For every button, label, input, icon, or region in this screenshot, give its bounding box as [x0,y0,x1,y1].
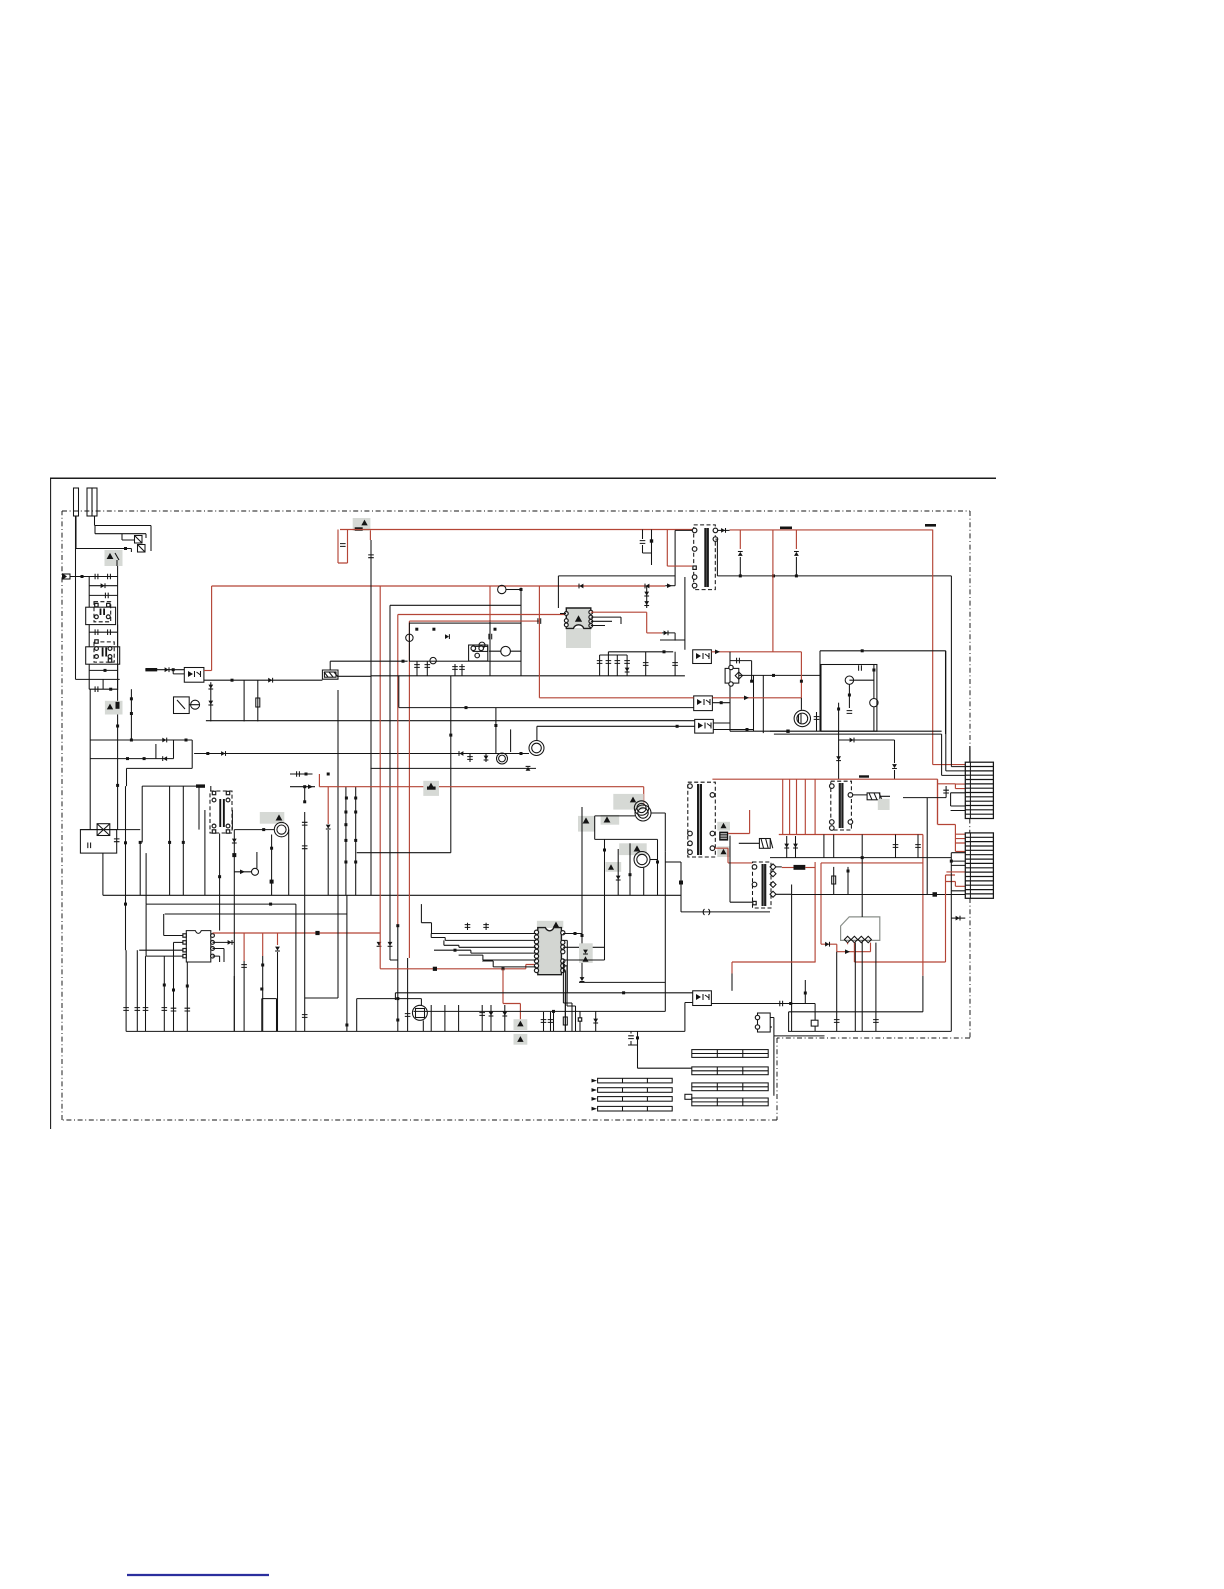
wire [481,1005,483,1031]
wire [903,797,946,799]
wire [608,651,673,653]
diode D605 [165,667,169,672]
resistor R602 [256,698,260,707]
wire [821,862,923,864]
capacitor C603 [105,593,108,599]
node [186,985,189,988]
main bus GND3 [788,1030,951,1032]
pin [183,941,186,944]
node [454,949,457,952]
diode D606 [268,678,272,683]
pin [753,901,756,904]
capacitor C638 [483,925,489,928]
pin [95,655,99,659]
capacitor C644 [541,1020,547,1023]
wire [206,720,695,722]
wire [76,549,131,553]
diode D601 [101,583,105,588]
relay contact S601a [135,536,143,544]
connector CN602 [965,833,993,898]
transistor Q604 [252,868,259,875]
transformer T603 [831,781,852,830]
main bus [774,733,942,735]
wire [173,942,175,1031]
wire [135,536,142,543]
wire [951,853,965,891]
wire [646,586,648,608]
node [270,847,273,850]
photocoupler PC606 [758,1013,771,1032]
node [795,574,798,577]
wire [407,958,409,1031]
wire [390,605,398,960]
wire [139,949,183,951]
dashed box L602 [94,642,114,662]
wire [629,843,631,895]
diode D610 [232,839,237,843]
wire [122,534,135,540]
node [116,725,119,728]
wire [789,779,791,834]
wire [89,689,91,740]
line filter L602 [86,647,120,664]
diode D603 [163,756,167,761]
wire [946,871,965,873]
pin [830,826,835,831]
label [859,775,869,777]
wire [537,725,695,727]
node [629,873,632,876]
transistor Q612 [634,801,648,815]
wire [90,740,173,830]
shaded area [606,862,622,872]
node [656,861,659,864]
node [270,880,274,884]
capacitor C618 [452,667,458,670]
diode D622 [892,764,897,768]
wire [772,530,774,652]
node [581,934,584,937]
label bar [598,1088,673,1093]
diode D627 [616,876,621,880]
diamond [735,672,742,679]
wire [213,956,220,962]
capacitor C635 [241,965,247,968]
wire [70,576,118,578]
wire [595,838,658,840]
wire [210,786,212,791]
wire [506,589,521,591]
wire [489,586,491,620]
pin [534,959,538,963]
transistor Q617 [634,852,650,868]
wire [563,966,575,1006]
shaded area switch [105,550,123,566]
diode D616 [625,668,630,672]
wire [305,895,338,998]
wire [938,779,956,851]
wire [212,585,666,587]
node [800,680,803,683]
pin [534,949,538,953]
wire [304,787,306,802]
wire [776,867,792,894]
warning icon [604,816,611,822]
wire [421,923,536,934]
capacitor C633 [171,1008,177,1011]
node [81,575,84,578]
core RY601 [219,799,221,827]
wire [233,830,235,896]
wire [380,934,534,969]
node [432,628,435,631]
bridge diagonals [97,824,110,836]
capacitor C640 [780,1001,783,1007]
wire [169,786,171,895]
wire [770,1018,774,1036]
wire [261,999,263,1032]
gate bars [799,714,802,723]
pin [688,850,693,855]
pin [183,934,186,937]
wire [718,529,730,531]
diode D626 [956,916,960,921]
wire [665,585,675,587]
pin [479,646,484,651]
shaded area [717,846,730,857]
wire [520,588,522,676]
diode D607 [208,685,213,689]
node [185,739,188,742]
pin [106,615,110,619]
pin [534,968,538,972]
wire [136,950,138,1031]
wire [791,885,793,895]
capacitor C605 [108,629,111,635]
wire [664,993,666,1012]
wire [563,961,572,1031]
warning icon [721,823,727,828]
pin [108,647,112,651]
wire [951,917,965,919]
wire [125,786,127,950]
arrow [667,583,672,588]
label bar [692,1083,768,1091]
wire [186,962,188,1031]
capacitor [672,663,678,666]
wire [434,950,536,953]
wire [591,611,647,613]
diode D630 [583,950,588,954]
wire [667,530,692,567]
pin [710,846,715,851]
fuse F602 [87,488,92,516]
transistor Q617 inner [637,854,647,864]
wire [398,614,566,616]
wire [730,529,933,531]
wire [657,839,659,895]
wire [579,1011,581,1031]
node [746,728,749,731]
wire [820,863,822,944]
wire [211,586,213,671]
node [124,903,127,906]
capacitor C629 [135,1008,141,1011]
diode [459,751,463,756]
pin [561,945,565,949]
pin [475,653,480,658]
capacitor C608 [88,843,91,849]
wire [338,530,348,564]
wire [875,943,877,1032]
wire [89,577,117,607]
regulator IC603 [566,608,591,628]
wire [138,545,145,552]
wire [304,812,306,895]
diode D615 [664,631,668,636]
capacitor C642 [628,1036,634,1039]
node [396,1019,399,1022]
regulator IC605 outline [841,917,880,941]
diode D612 [445,634,449,639]
wire [819,651,821,731]
capacitor C616 [538,618,541,624]
pin [752,865,757,870]
IC605 pins [844,936,850,942]
wire [213,949,225,963]
wire [399,707,694,709]
arrow [308,784,313,789]
transistor Q615 [794,710,810,726]
PC604 internals [698,723,703,729]
wire [739,674,821,676]
wire [369,530,371,541]
capacitor [606,661,612,664]
label [925,524,936,527]
wire [80,829,140,831]
capacitor C626 [834,1020,840,1023]
wire [730,661,752,682]
main bus GND2 [126,1030,685,1032]
diode D628 [275,947,280,951]
wire [557,576,559,608]
wire [455,664,462,676]
wire [75,516,77,549]
wire [142,785,199,787]
pin [212,824,216,828]
wire [277,933,279,945]
pin [755,1015,759,1019]
node [449,734,452,737]
label bar [692,1098,768,1106]
photocoupler PC602 [693,650,712,664]
pin [212,798,216,802]
wire [290,773,313,775]
node [848,694,851,697]
wire [370,540,372,895]
main bus [717,575,951,577]
node [104,669,107,672]
photocoupler PC601 [184,668,204,683]
node [354,797,357,800]
wire [408,621,410,958]
wire [795,836,797,858]
diode D632 [502,1012,507,1016]
warning icon [575,615,582,622]
wire [728,810,749,834]
wire [75,516,77,679]
wire [233,976,235,1031]
wire [788,1012,790,1032]
pin [211,941,215,945]
wire [357,852,451,854]
transformer T604 [753,862,772,908]
node [182,841,185,844]
photocoupler PC605 [693,991,712,1006]
wire [712,702,730,704]
wire [739,530,741,549]
pin [226,830,229,833]
capacitor C625 [915,845,921,848]
capacitor C615 [425,665,431,668]
diode [484,756,489,760]
wire [243,961,245,1031]
node [750,680,753,683]
wire [664,851,666,993]
wire [256,852,258,868]
wire [782,779,784,834]
relay RY601 box [210,791,232,833]
transistor Q614 [870,699,878,707]
wire [617,849,619,895]
wire [786,836,788,858]
node [305,773,308,776]
shaded area ground [514,1034,528,1045]
photocoupler PC603 [694,696,713,711]
wire [89,669,117,671]
node [574,932,577,935]
node [130,697,133,700]
wire [942,767,966,776]
diode D614 [644,601,649,605]
wire [489,650,521,652]
wire [712,697,801,699]
wire [470,754,486,763]
wire [616,655,618,676]
diode D619 [738,552,743,556]
wire [482,961,536,967]
capacitor C632 [162,1008,168,1011]
wire [139,842,141,895]
pin [211,934,215,938]
pin [534,945,538,949]
node [402,660,405,663]
resistor R610 [811,1020,818,1026]
wire [814,1026,816,1031]
node [232,853,236,857]
diode D635 [388,942,393,946]
wire [145,669,184,671]
warning icon [721,849,727,854]
transistor Q608 [479,642,485,648]
pin [693,566,696,569]
wire [833,867,835,894]
node [804,992,807,995]
regulator IC604 [725,668,739,683]
wire [156,740,174,759]
wire [219,834,221,931]
node [396,997,399,1000]
transistor Q611 [497,753,508,764]
pin [692,583,697,588]
wire [271,835,273,896]
wire [591,617,621,625]
wire [243,933,245,961]
wire [936,779,938,824]
pin [830,784,835,789]
wire [141,786,143,842]
transistor Q616 inner [638,808,648,818]
wire [146,903,296,905]
wire [337,754,339,896]
wire [431,938,536,941]
warning icon [583,956,589,961]
wire [796,779,798,834]
main bus [730,730,942,732]
node [327,773,330,776]
wire [731,962,733,974]
controller IC602 box [409,623,521,661]
wire [213,932,381,934]
wire [459,955,536,960]
dashed box L601 [94,602,111,622]
shaded area [579,943,593,963]
pin [564,623,568,627]
resistor R607 [832,876,836,884]
node [433,967,437,971]
wire [800,652,802,698]
wire [650,859,658,861]
transistor Q615 inner [797,713,808,724]
capacitor C617 [489,634,492,640]
transformer T603 core [840,783,843,828]
wire [680,862,682,912]
node [124,841,127,844]
wire [409,620,539,622]
wire [234,829,274,831]
wire [715,539,717,576]
transistor Q612 inner [637,803,646,812]
wire [304,895,306,1031]
transformer T601 [694,525,716,590]
transistor Q607 [406,634,413,641]
diode D611 [326,825,331,829]
wire [779,834,923,836]
wire [355,787,357,896]
transformer T601 core [705,528,707,587]
wire [117,566,119,690]
wire [628,1031,638,1045]
wire [90,739,192,741]
wire [922,976,924,1012]
diode D604 [221,751,225,756]
wire [397,615,399,926]
wire [563,971,565,1032]
wire [941,734,943,775]
wire [662,633,675,641]
node [950,860,953,863]
warning icon [517,1036,523,1042]
